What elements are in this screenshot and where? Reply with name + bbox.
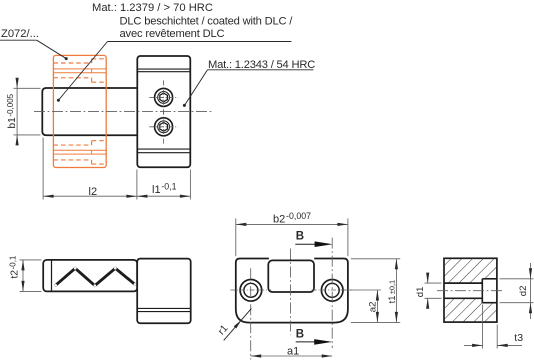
screw lower bbox=[155, 118, 173, 136]
counterpart hidden (dashed) lines bottom bbox=[53, 159, 91, 161]
radius r1 leader bbox=[224, 308, 252, 340]
screw lower crosshair bbox=[149, 126, 178, 128]
note Mat 1.2343 leader bbox=[208, 69, 314, 71]
bar (shaft bottom view) bbox=[43, 260, 137, 292]
section body bbox=[444, 258, 497, 322]
block chamfer lines bbox=[137, 68, 190, 70]
dimension a1 line bbox=[251, 355, 333, 357]
svg-text:Mat.: 1.2343 / 54 HRC: Mat.: 1.2343 / 54 HRC bbox=[208, 59, 315, 71]
dimension t1 extension lines bbox=[351, 258, 400, 260]
bar end cap line bbox=[51, 260, 53, 292]
dimension b1 extension lines bbox=[14, 87, 41, 89]
dimension a2 line bbox=[376, 290, 378, 322]
counterpart hidden (dashed) lines top bbox=[53, 62, 91, 64]
shaft (pin), side view bbox=[42, 88, 137, 135]
svg-text:B: B bbox=[296, 329, 304, 341]
dimension t2 extension lines bbox=[20, 259, 42, 261]
vertical centerline bbox=[290, 249, 292, 335]
svg-text:t1±0,1: t1±0,1 bbox=[386, 280, 397, 304]
svg-text:d1: d1 bbox=[415, 287, 426, 298]
section arrow B top bbox=[295, 243, 317, 245]
dimension b1 line and arrows bbox=[16, 79, 18, 145]
screw upper crosshair bbox=[149, 96, 178, 98]
centerline bbox=[34, 111, 212, 113]
svg-text:Z072/...: Z072/... bbox=[1, 28, 39, 40]
section line B-B bbox=[331, 238, 333, 348]
block chamfer lines (bottom view) bbox=[137, 307, 191, 309]
svg-text:a1: a1 bbox=[287, 346, 299, 358]
dimension d2 line/arrows bbox=[530, 263, 532, 319]
dimension b2 line bbox=[236, 223, 348, 225]
counterbore d2 bbox=[481, 279, 483, 303]
plate outline (front view) bbox=[236, 259, 348, 323]
note Mat 1.2379 DLC leader bbox=[108, 41, 292, 43]
svg-text:a2: a2 bbox=[367, 302, 378, 313]
section arrow B bottom bbox=[296, 341, 317, 343]
block (bottom view) bbox=[137, 259, 191, 324]
dimension t3 line/arrows bbox=[464, 344, 483, 346]
serration zigzag bbox=[56, 268, 135, 285]
section centerline bbox=[437, 290, 504, 292]
right screw hole bbox=[321, 280, 343, 302]
svg-text:l2: l2 bbox=[89, 186, 98, 198]
svg-text:DLC beschichtet / coated with: DLC beschichtet / coated with DLC / bbox=[120, 15, 294, 27]
svg-text:d2: d2 bbox=[518, 286, 529, 297]
dimension b2 extension lines bbox=[235, 218, 237, 256]
left screw hole bbox=[240, 280, 262, 302]
svg-text:t3: t3 bbox=[514, 332, 523, 344]
counterpart Z072 outline (orange phantom) bbox=[53, 55, 106, 167]
dimension d2 extension lines bbox=[500, 278, 534, 280]
dimension t2 line bbox=[22, 260, 24, 292]
label Z072 leader bbox=[0, 39, 37, 41]
dimension t1 line bbox=[395, 259, 397, 323]
dimension l2/l1 extension lines bbox=[42, 138, 44, 200]
dimension d1 extension lines bbox=[425, 282, 442, 284]
dimension l2 line bbox=[43, 195, 137, 197]
left hole centerlines bbox=[230, 289, 271, 291]
dimension d1 line/arrows bbox=[427, 274, 429, 284]
dimension l1 line bbox=[137, 195, 191, 197]
svg-text:Mat.: 1.2379 / > 70 HRC: Mat.: 1.2379 / > 70 HRC bbox=[92, 2, 213, 14]
counterpart solid inner lines bbox=[53, 68, 106, 70]
right hole centerline horizontal bbox=[312, 289, 353, 291]
center pocket bbox=[268, 260, 314, 292]
dimension a2 extension line bbox=[344, 289, 382, 291]
hole d1 lines bbox=[444, 282, 482, 284]
dimension t3 extension lines bbox=[482, 305, 484, 349]
svg-text:avec revêtement DLC: avec revêtement DLC bbox=[120, 28, 225, 40]
screw upper bbox=[155, 88, 173, 106]
clamp block, side view bbox=[137, 56, 190, 167]
svg-text:B: B bbox=[296, 231, 304, 243]
